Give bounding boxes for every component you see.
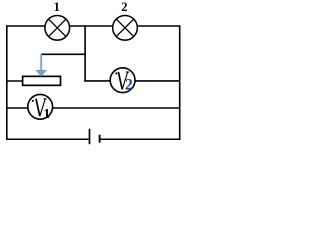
wire: bottom, left rail to battery positive plate <box>6 138 89 140</box>
wire: rheostat wiper to node A <box>41 53 86 55</box>
wire: bottom, battery negative plate to right rail <box>100 138 180 140</box>
lamp 1 <box>45 15 70 40</box>
wire: top bus, lamp 2 to right rail <box>137 25 181 27</box>
wire: top bus, battery left rail to lamp 1 <box>6 25 45 27</box>
svg-text:2: 2 <box>125 76 133 93</box>
wire: left rail <box>6 25 8 140</box>
lamp 2 <box>113 15 138 40</box>
wire: voltmeter V1 row, left rail to V1 and V1 to right rail <box>6 107 180 109</box>
wire: node A vertical drop to voltmeter V2 row <box>84 25 86 81</box>
wire: voltmeter V2 row, node A drop to V2 and V2 to right rail <box>84 80 180 82</box>
svg-text:1: 1 <box>43 107 50 122</box>
svg-text:1: 1 <box>54 0 60 14</box>
svg-text:2: 2 <box>121 0 127 14</box>
voltmeter V1 <box>28 94 53 122</box>
wire: top bus, lamp 1 to lamp 2 through node A <box>70 25 113 27</box>
rheostat slider arrow (blue) <box>36 54 47 77</box>
wire: left rail to rheostat left terminal <box>6 80 23 82</box>
voltmeter V2 <box>110 68 135 94</box>
wire: right rail <box>179 25 181 140</box>
battery B1 positive plate (long) <box>89 129 91 144</box>
resistor R1 (rheostat body) <box>23 76 61 85</box>
battery B1 negative plate (short) <box>99 135 101 143</box>
